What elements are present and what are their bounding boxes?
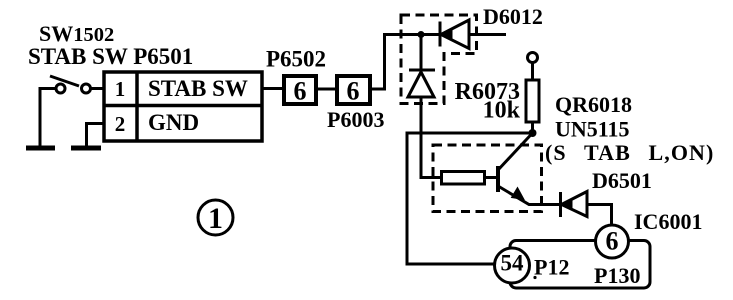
svg-text:P6502: P6502 xyxy=(266,47,326,72)
node junction R6073 collector xyxy=(529,129,537,137)
wire P6003 up to diode net xyxy=(370,35,506,90)
svg-text:6: 6 xyxy=(606,227,619,256)
svg-text:D6012: D6012 xyxy=(483,4,543,29)
diode D6501 xyxy=(561,192,588,218)
wire base resistor to transistor xyxy=(485,176,498,179)
svg-text:QR6018: QR6018 xyxy=(555,92,632,117)
svg-text:P130: P130 xyxy=(594,263,640,288)
diode (vertical, in package) xyxy=(408,70,435,97)
node junction diode net xyxy=(418,31,425,38)
label D6501 xyxy=(592,168,652,193)
pin number 1 xyxy=(115,77,126,101)
ground (right) xyxy=(71,146,101,151)
connector box P130 xyxy=(510,241,650,289)
svg-text:SW1502: SW1502 xyxy=(39,21,114,46)
label IC6001 xyxy=(634,209,702,234)
label P6502 xyxy=(266,47,326,72)
note circled 1 xyxy=(198,200,233,235)
connector P6003 pin 6 xyxy=(337,76,370,106)
pin label GND xyxy=(148,110,199,135)
svg-text:10k: 10k xyxy=(483,98,521,124)
svg-text:P12: P12 xyxy=(534,255,569,280)
svg-text:P6003: P6003 xyxy=(327,107,384,132)
wire switch left leg xyxy=(40,89,56,149)
label STAB SW P6501 xyxy=(28,44,193,69)
svg-text:UN5115: UN5115 xyxy=(555,117,630,142)
label P130 xyxy=(594,263,640,288)
wire switch to pin 1 xyxy=(91,87,105,90)
ground (left) xyxy=(26,146,55,151)
label P6003 xyxy=(327,107,384,132)
resistor R6073 xyxy=(526,63,539,134)
wire P6502 to P6003 xyxy=(316,88,337,91)
transistor QR6018 NPN xyxy=(498,133,560,205)
switch SW1502 xyxy=(50,76,91,93)
label SW1502 xyxy=(39,21,114,46)
label (S TAB L,ON) xyxy=(545,140,714,165)
label P12 xyxy=(534,255,569,280)
svg-text:2: 2 xyxy=(115,112,126,136)
wire collector net to pin 54 leg xyxy=(407,133,533,264)
terminal circle above R6073 xyxy=(528,53,538,63)
wire pin 2 to ground xyxy=(87,124,105,149)
svg-text:IC6001: IC6001 xyxy=(634,209,702,234)
connector P6501 xyxy=(104,72,262,141)
wire D6501 to pin 6 xyxy=(587,205,612,226)
svg-text:(S TAB L,ON): (S TAB L,ON) xyxy=(545,140,714,165)
speck xyxy=(533,276,536,279)
connector P6502 pin 6 xyxy=(284,76,316,106)
label QR6018 xyxy=(555,92,632,117)
svg-text:6: 6 xyxy=(347,77,360,106)
pin number 2 xyxy=(115,112,126,136)
svg-text:1: 1 xyxy=(208,202,223,235)
pin 54 circle xyxy=(495,248,530,283)
dashed box transistor QR6018 xyxy=(433,145,542,212)
label UN5115 xyxy=(555,117,630,142)
svg-text:D6501: D6501 xyxy=(592,168,652,193)
diode D6012 xyxy=(440,20,469,49)
wire P6501 to P6502 xyxy=(262,87,283,90)
label R6073 10k xyxy=(455,79,521,124)
svg-text:6: 6 xyxy=(294,77,307,106)
pin 6 circle IC6001 xyxy=(596,225,629,258)
resistor (base, in package) xyxy=(442,172,485,185)
label D6012 xyxy=(483,4,543,29)
wire diode anode down to base resistor xyxy=(421,97,441,178)
svg-text:STAB SW: STAB SW xyxy=(148,76,248,101)
wire vertical diode branch xyxy=(420,35,423,71)
svg-text:GND: GND xyxy=(148,110,199,135)
svg-text:54: 54 xyxy=(501,251,525,276)
svg-text:1: 1 xyxy=(115,77,126,101)
dashed box diode package xyxy=(401,15,477,104)
pin label STAB SW xyxy=(148,76,248,101)
svg-text:STAB SW P6501: STAB SW P6501 xyxy=(28,44,193,69)
